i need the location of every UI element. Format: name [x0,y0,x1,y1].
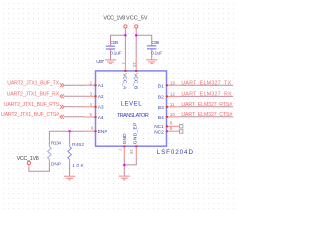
svg-text:B3: B3 [158,105,164,111]
svg-text:12: 12 [170,92,175,97]
junction VCC_1V8/C88 [124,34,127,37]
pin A1 (2) [84,80,104,89]
pin B2 (12) [158,92,179,101]
svg-text:16: 16 [129,149,134,154]
svg-text:DNP: DNP [51,162,61,168]
svg-text:R134: R134 [51,141,61,147]
svg-text:A2: A2 [98,94,104,100]
wire GND_EP pin to junction [124,158,136,165]
svg-text:B4: B4 [158,115,164,121]
svg-text:VCC_A: VCC_A [122,73,128,90]
wire R462 bottom to ground [69,159,71,164]
capacitor C88 [106,40,122,56]
net UART2_JTX1_BUF_RTS [4,102,84,109]
svg-text:A1: A1 [98,83,104,89]
resistor R134 [48,141,62,168]
svg-text:LEVEL: LEVEL [121,102,143,108]
resistor R462 [68,142,86,169]
net UART2_JTX1_BUF_RX [7,92,84,99]
net UART_ELM327_CTS# [179,112,233,118]
pin A2 (3) [84,92,104,101]
pin NC2 (9) with no-connect [154,126,183,135]
svg-text:LSF0204D: LSF0204D [157,149,194,156]
net UART_ELM327_RX [179,92,233,98]
pin EN# (6) [84,126,107,135]
wire R134 bottom to VCC_1V8 [48,159,50,164]
pin A4 (5) [84,112,104,121]
svg-text:C88: C88 [110,40,118,46]
svg-text:A4: A4 [98,115,104,121]
svg-text:14: 14 [132,62,137,67]
ground (IC GND) [119,176,130,180]
svg-text:NC2: NC2 [154,129,164,135]
svg-text:TRANSLATOR: TRANSLATOR [117,113,149,119]
junction VCC_5V/C89 [135,34,138,37]
svg-text:GND_EP: GND_EP [133,122,139,144]
power symbol VCC_1V8 (top) [103,15,127,28]
svg-text:10K: 10K [72,163,85,169]
svg-text:0.1uF: 0.1uF [151,50,162,56]
power symbol VCC_5V (top) [126,15,148,28]
wire R134 top [48,131,50,143]
net UART_ELM327_RTS# [179,102,233,108]
IC center label [117,102,149,120]
svg-text:UART2_JTX1_BUF_RX: UART2_JTX1_BUF_RX [7,92,60,98]
svg-text:C89: C89 [151,40,159,46]
wire VCC_1V8 rail from power symbol to VCCA pin [124,28,126,30]
capacitor C89 [147,40,162,56]
svg-text:UART2_JTX1_BUF_RTS: UART2_JTX1_BUF_RTS [4,102,60,108]
pin GND (7) [118,133,128,158]
svg-text:R462: R462 [72,142,84,148]
pin B4 (10) [158,112,179,121]
pin GND_EP (16) [129,122,139,157]
wire GND pin to ground junction [123,158,125,176]
svg-text:B1: B1 [158,83,164,89]
svg-text:U37: U37 [96,59,104,65]
svg-text:EN#: EN# [98,129,108,135]
pin B3 (11) [158,102,179,111]
ground (under C88) [105,60,116,64]
svg-text:UART2_JTX1_BUF_CTS#: UART2_JTX1_BUF_CTS# [1,112,59,118]
svg-text:11: 11 [170,102,175,107]
net UART_ELM327_TX [179,80,233,86]
pin NC1 (8) with no-connect [154,121,183,131]
svg-text:VCC_B: VCC_B [132,73,138,89]
junction GND nets [123,164,126,167]
pin VCCB (14) [132,57,139,90]
wire branch to C89 [136,35,152,41]
wire C89 to ground [151,49,153,54]
svg-text:VCC_1V8: VCC_1V8 [17,156,39,162]
pin B1 (13) [158,80,179,89]
svg-text:10: 10 [170,112,175,117]
svg-text:VCC_1V8: VCC_1V8 [103,15,125,21]
wire EN# net [49,130,84,132]
wire C88 to ground [110,49,112,54]
svg-text:VCC_5V: VCC_5V [126,15,148,21]
net UART2_JTX1_BUF_CTS# [1,112,84,119]
ground (under R462) [64,176,75,180]
ground (under C89) [146,60,157,64]
pin VCCA (1) [121,57,127,90]
net UART2_JTX1_BUF_TX [7,80,84,87]
svg-text:0.1uF: 0.1uF [110,50,121,56]
svg-text:NC1: NC1 [154,124,164,130]
IC U37 body (level translator) [96,71,167,146]
svg-text:13: 13 [170,80,175,85]
svg-text:UART2_JTX1_BUF_TX: UART2_JTX1_BUF_TX [7,80,59,86]
wire branch to C88 [111,35,126,41]
svg-text:B2: B2 [158,95,164,101]
svg-text:GND: GND [122,133,128,144]
wire R462 top [69,131,71,143]
wire VCC_5V rail from power symbol to VCCB pin [135,28,137,30]
power symbol VCC_1V8 (bottom) [17,156,39,165]
junction EN#/R462 [68,130,71,133]
pin A3 (4) [84,102,104,111]
svg-text:A3: A3 [98,105,104,111]
